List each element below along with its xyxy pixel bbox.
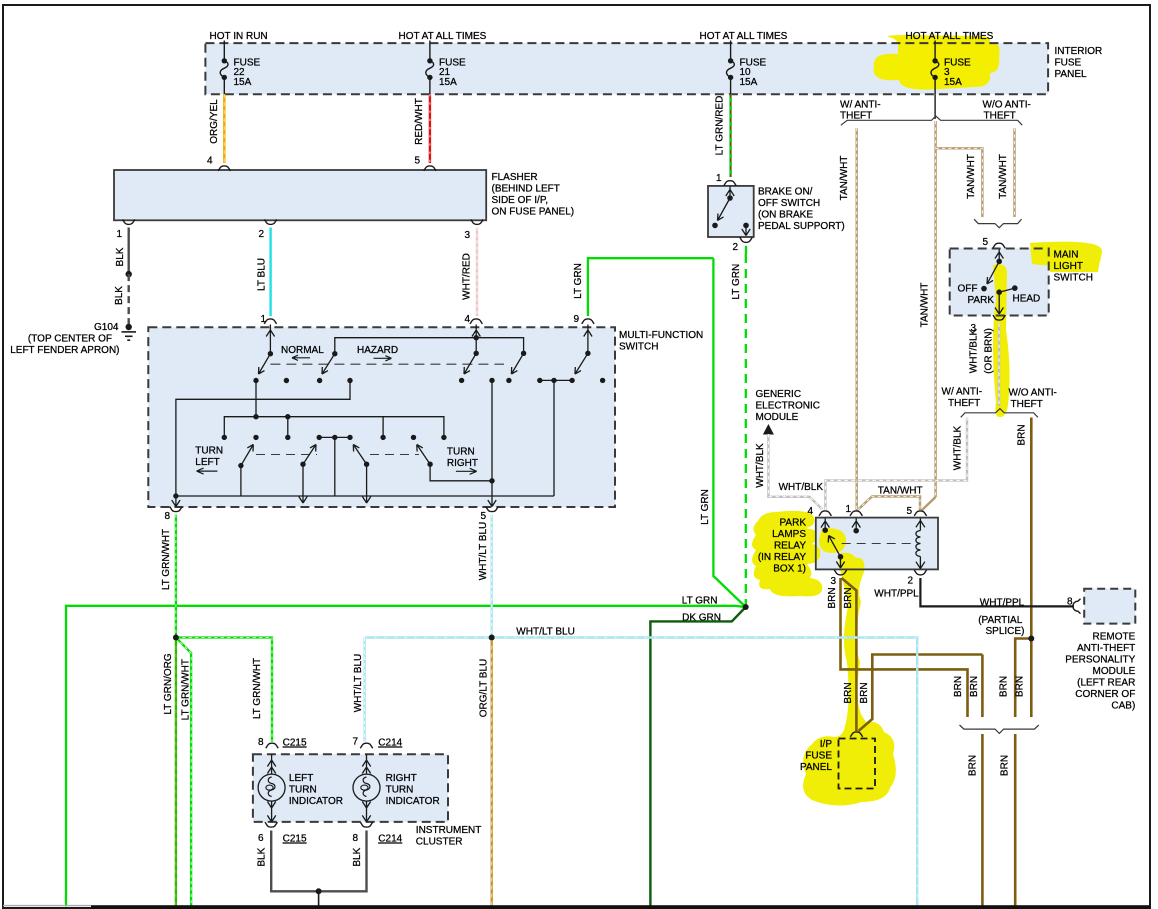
svg-text:FUSE: FUSE xyxy=(1055,58,1082,69)
MFS center-right arm with down arrow xyxy=(364,462,369,467)
MFS bottom bus to pin8 xyxy=(176,495,554,497)
MFS dashed gang line left xyxy=(256,454,317,456)
svg-text:ANTI-THEFT: ANTI-THEFT xyxy=(1077,643,1135,654)
flasher pin 3 connector xyxy=(471,219,483,224)
svg-text:SWITCH: SWITCH xyxy=(619,342,658,353)
wire LT GRN to MFS pin9 xyxy=(573,258,713,316)
svg-text:GENERIC: GENERIC xyxy=(756,389,802,400)
main light switch box xyxy=(950,249,1093,316)
svg-text:LT GRN/WHT: LT GRN/WHT xyxy=(161,529,172,590)
wire LT BLU flasher pin2 to MFS pin1 xyxy=(257,228,271,317)
MLS pin 3 connector pair xyxy=(993,315,1005,320)
svg-text:RELAY: RELAY xyxy=(774,541,806,552)
wire LT GRN brake pin2 down (dashed) xyxy=(731,246,746,604)
interior fuse panel U1 xyxy=(205,43,1102,94)
MFS lower contact dots row xyxy=(222,435,227,440)
wire WHT/LT BLU horizontal xyxy=(365,627,918,907)
svg-text:HOT AT ALL TIMES: HOT AT ALL TIMES xyxy=(700,31,788,42)
svg-text:LT GRN: LT GRN xyxy=(700,489,711,525)
svg-text:BRN: BRN xyxy=(967,755,978,776)
svg-text:15A: 15A xyxy=(944,77,962,88)
MFS pin 8 connector xyxy=(170,507,182,512)
MFS center-left arm with down arrow xyxy=(300,462,305,467)
svg-text:RED/WHT: RED/WHT xyxy=(414,98,425,145)
svg-text:BRN: BRN xyxy=(859,682,870,703)
wire TAN/WHT left branch (long, to relay pin1) xyxy=(839,128,857,511)
svg-text:PEDAL SUPPORT): PEDAL SUPPORT) xyxy=(758,221,845,232)
svg-text:PANEL: PANEL xyxy=(800,762,832,773)
svg-text:SWITCH: SWITCH xyxy=(1054,273,1093,284)
instrument cluster fill xyxy=(253,754,448,822)
svg-text:C214: C214 xyxy=(378,834,402,845)
svg-text:C215: C215 xyxy=(283,738,307,749)
svg-text:RIGHT: RIGHT xyxy=(386,773,417,784)
svg-text:BLK: BLK xyxy=(115,247,126,266)
wire LT GRN long from MFS pin9 corner down to junction xyxy=(700,258,746,607)
svg-text:G104: G104 xyxy=(94,322,119,333)
wire WHT/BLK anti-theft branch to relay pin4 xyxy=(825,418,967,511)
wire BRN bottom pair to bottom bar xyxy=(967,734,1015,907)
park lamps relay box xyxy=(758,518,938,575)
wire ORG/YEL fuse22 to flasher pin4 xyxy=(209,94,224,163)
svg-text:SIDE OF I/P,: SIDE OF I/P, xyxy=(492,195,549,206)
right turn indicator bulb xyxy=(353,754,440,822)
merge brace BRN wires xyxy=(960,725,1039,733)
svg-text:BRN: BRN xyxy=(1014,676,1025,697)
svg-text:LT GRN/RED: LT GRN/RED xyxy=(715,96,726,156)
highlighter: main light switch label xyxy=(1030,242,1102,272)
svg-text:REMOTE: REMOTE xyxy=(1093,632,1136,643)
svg-text:C215: C215 xyxy=(283,834,307,845)
svg-text:HEAD: HEAD xyxy=(1013,294,1041,305)
svg-text:MAIN: MAIN xyxy=(1054,250,1079,261)
svg-text:PANEL: PANEL xyxy=(1055,69,1087,80)
main light switch fill xyxy=(950,249,1049,316)
svg-text:W/ ANTI-: W/ ANTI- xyxy=(942,387,983,398)
svg-text:LT GRN/WHT: LT GRN/WHT xyxy=(252,658,263,719)
svg-text:BRN: BRN xyxy=(953,676,964,697)
svg-text:WHT/LT BLU: WHT/LT BLU xyxy=(516,627,575,638)
wire BRN anti-theft branch long xyxy=(1017,418,1032,639)
merge brace above main light switch xyxy=(974,219,1021,228)
svg-text:MODULE: MODULE xyxy=(1093,666,1136,677)
svg-text:1: 1 xyxy=(716,173,722,184)
split brace under fuse 3 xyxy=(841,116,1022,125)
svg-text:BRN: BRN xyxy=(999,755,1010,776)
svg-text:WHT/BLK: WHT/BLK xyxy=(755,443,766,488)
svg-text:6: 6 xyxy=(258,833,264,844)
svg-text:TURN: TURN xyxy=(447,447,475,458)
connector C215 top xyxy=(266,743,278,748)
svg-text:PERSONALITY: PERSONALITY xyxy=(1065,655,1135,666)
I/P fuse panel connector arc xyxy=(850,732,862,737)
wire TAN/WHT jog relay pin1 to pin5 xyxy=(858,486,923,511)
MFS pin 4 connector xyxy=(470,319,482,324)
fuse 3 15A xyxy=(931,41,971,95)
svg-text:4: 4 xyxy=(464,314,470,325)
brake switch pin 1 connector xyxy=(724,181,736,186)
svg-text:TURN: TURN xyxy=(195,446,223,457)
svg-text:INDICATOR: INDICATOR xyxy=(386,796,440,807)
split brace lower xyxy=(961,409,1038,418)
MFS dashed gang line upper xyxy=(270,363,504,365)
svg-text:HOT IN RUN: HOT IN RUN xyxy=(210,31,268,42)
svg-text:(TOP CENTER OF: (TOP CENTER OF xyxy=(28,334,112,345)
svg-text:ELECTRONIC: ELECTRONIC xyxy=(756,401,820,412)
svg-text:W/ ANTI-: W/ ANTI- xyxy=(840,99,881,110)
svg-text:INDICATOR: INDICATOR xyxy=(289,796,343,807)
MFS wire lower row link xyxy=(319,436,350,438)
svg-text:8: 8 xyxy=(1067,597,1073,608)
wire BRN relay pin3 branch B to I/P fuse panel xyxy=(842,578,857,731)
ground G104 xyxy=(10,322,136,356)
generic electronic module label and arrow xyxy=(756,389,820,435)
svg-text:15A: 15A xyxy=(740,77,758,88)
MFS normal switch arm xyxy=(259,354,271,374)
flasher pin 4 connector xyxy=(218,166,230,171)
svg-text:3: 3 xyxy=(464,230,470,241)
svg-text:9: 9 xyxy=(573,314,579,325)
wire LT GRN/WHT branch to C215 xyxy=(176,638,272,743)
svg-text:LAMPS: LAMPS xyxy=(772,529,806,540)
svg-text:TAN/WHT: TAN/WHT xyxy=(878,486,923,497)
svg-text:TAN/WHT: TAN/WHT xyxy=(920,283,931,328)
svg-text:8: 8 xyxy=(258,737,264,748)
remote anti-theft personality module box xyxy=(1065,589,1135,712)
svg-text:(LEFT REAR: (LEFT REAR xyxy=(1077,678,1135,689)
svg-text:15A: 15A xyxy=(439,77,457,88)
MLS internals OFF PARK HEAD xyxy=(958,250,1041,315)
svg-text:WHT/PPL: WHT/PPL xyxy=(980,598,1025,609)
svg-text:TAN/WHT: TAN/WHT xyxy=(966,154,977,199)
svg-text:HAZARD: HAZARD xyxy=(357,345,398,356)
wire ORG/LT BLU from cyan junction down xyxy=(479,638,492,907)
svg-text:(BEHIND LEFT: (BEHIND LEFT xyxy=(492,184,560,195)
svg-text:THEFT: THEFT xyxy=(1011,399,1043,410)
svg-text:1: 1 xyxy=(260,314,266,325)
wire BRN relay pin3 branch A to right xyxy=(827,578,968,717)
relay internals: switch and pins xyxy=(821,519,917,569)
svg-text:C214: C214 xyxy=(378,738,402,749)
relay pin 4 connector xyxy=(819,511,831,516)
wire fuse3 to split brace xyxy=(934,94,936,119)
svg-text:5: 5 xyxy=(480,511,486,522)
svg-text:CLUSTER: CLUSTER xyxy=(416,837,463,848)
wire WHT/BLK (OR BRN) MLS pin3 down to brace xyxy=(969,324,1000,407)
svg-text:7: 7 xyxy=(352,737,358,748)
flasher pin 2 connector xyxy=(264,219,276,224)
svg-text:BRN: BRN xyxy=(827,587,838,608)
svg-text:BRN: BRN xyxy=(1017,424,1028,445)
svg-text:BRN: BRN xyxy=(969,676,980,697)
MFS wire dot554 down xyxy=(553,380,555,496)
wire WHT/RED flasher pin3 to MFS pin4 xyxy=(462,228,478,317)
svg-text:W/O ANTI-: W/O ANTI- xyxy=(1009,388,1057,399)
wire DK GRN from junction xyxy=(650,607,745,907)
svg-text:(OR BRN): (OR BRN) xyxy=(984,328,995,374)
relay coil xyxy=(916,519,925,569)
flasher pin 5 connector xyxy=(424,166,436,171)
wire TAN/WHT center stem diagonal into relay pin5 xyxy=(922,497,936,511)
svg-text:HOT AT ALL TIMES: HOT AT ALL TIMES xyxy=(906,31,994,42)
svg-text:CORNER OF: CORNER OF xyxy=(1075,689,1135,700)
wire LT GRN horizontal to left edge column xyxy=(66,606,746,907)
svg-text:CAB): CAB) xyxy=(1111,701,1135,712)
svg-text:5: 5 xyxy=(414,156,420,167)
svg-text:WHT/RED: WHT/RED xyxy=(462,253,473,300)
svg-text:W/O ANTI-: W/O ANTI- xyxy=(983,99,1031,110)
wire tan center stem below brace xyxy=(920,121,936,497)
MFS pin9 entry wire and pivot xyxy=(584,325,592,354)
MFS second hazard pivot arm xyxy=(521,351,526,356)
wire WHT/PPL relay pin2 to remote module pin8 xyxy=(920,578,1074,637)
MFS dashed gang line right xyxy=(370,454,419,456)
MFS wire dot350 to left leg xyxy=(176,381,350,497)
svg-text:LT GRN/WHT: LT GRN/WHT xyxy=(181,659,192,720)
highlighter: brn strip below relay pin3 xyxy=(803,553,896,806)
svg-text:2: 2 xyxy=(907,576,913,587)
svg-text:LEFT: LEFT xyxy=(289,773,313,784)
node junction dot green split xyxy=(173,635,179,641)
svg-text:MULTI-FUNCTION: MULTI-FUNCTION xyxy=(619,330,703,341)
svg-text:I/P: I/P xyxy=(820,739,833,750)
MLS pin 5 connector xyxy=(993,243,1005,248)
svg-text:ORG/YEL: ORG/YEL xyxy=(209,99,220,144)
relay pin 1 connector xyxy=(850,511,862,516)
MFS wire center down xyxy=(334,437,336,496)
MFS pin9 switch arm xyxy=(575,353,588,374)
svg-text:FUSE: FUSE xyxy=(805,751,832,762)
svg-text:PARK: PARK xyxy=(780,518,807,529)
svg-text:8: 8 xyxy=(352,833,358,844)
wire tan loop branch W/O anti-theft xyxy=(936,148,983,217)
svg-text:1: 1 xyxy=(116,229,122,240)
svg-text:2: 2 xyxy=(258,229,264,240)
svg-text:(PARTIAL: (PARTIAL xyxy=(978,615,1023,626)
svg-text:WHT/LT BLU: WHT/LT BLU xyxy=(353,654,364,713)
MFS wire dot256 to bus xyxy=(255,381,257,417)
svg-text:LIGHT: LIGHT xyxy=(1054,261,1083,272)
highlighter: fuse 3 xyxy=(873,35,999,90)
remote module pin 8 connector xyxy=(1073,599,1081,614)
MFS pin4 entry wire and pivot xyxy=(472,325,480,354)
svg-text:4: 4 xyxy=(207,156,213,167)
svg-text:TAN/WHT: TAN/WHT xyxy=(839,156,850,201)
MFS pin 9 connector xyxy=(582,319,594,324)
svg-text:1: 1 xyxy=(845,504,851,515)
node junction dot LT GRN / DK GRN xyxy=(743,604,749,610)
svg-text:MODULE: MODULE xyxy=(756,412,799,423)
wire BLK flasher pin1 to G104 xyxy=(114,228,132,328)
flasher box xyxy=(114,170,574,220)
svg-text:4: 4 xyxy=(807,506,813,517)
svg-text:ON FUSE PANEL): ON FUSE PANEL) xyxy=(492,207,575,218)
wire BRN branch from splice xyxy=(953,639,1031,718)
connector C214 bottom xyxy=(360,822,372,827)
MFS hazard pivot and riser xyxy=(332,351,337,356)
fuse 22 15A xyxy=(220,41,260,95)
svg-text:TURN: TURN xyxy=(386,785,414,796)
connector C215 bottom xyxy=(265,822,277,827)
highlighter: park wire strip xyxy=(993,264,1010,417)
svg-text:WHT/BLK: WHT/BLK xyxy=(779,482,824,493)
MFS pin5 wire down xyxy=(489,478,494,483)
wire WHT/LT BLU MFS pin5 down xyxy=(478,515,492,638)
svg-text:5: 5 xyxy=(906,506,912,517)
remote module fill xyxy=(1084,589,1135,624)
MFS pin 1 connector xyxy=(264,319,276,324)
svg-text:WHT/BLK: WHT/BLK xyxy=(969,328,980,373)
park lamps relay fill xyxy=(816,518,938,570)
svg-text:TAN/WHT: TAN/WHT xyxy=(998,154,1009,199)
left turn indicator bulb xyxy=(258,754,343,822)
wire tan from brace right end xyxy=(998,128,1015,217)
svg-text:3: 3 xyxy=(830,576,836,587)
svg-text:5: 5 xyxy=(982,237,988,248)
svg-text:LT GRN/ORG: LT GRN/ORG xyxy=(163,653,174,715)
svg-text:NORMAL: NORMAL xyxy=(281,345,324,356)
svg-text:INSTRUMENT: INSTRUMENT xyxy=(416,825,482,836)
MFS turn-left arm xyxy=(238,463,243,468)
brake on/off switch xyxy=(708,186,845,237)
connector C214 top xyxy=(360,743,372,748)
svg-text:SPLICE): SPLICE) xyxy=(986,626,1025,637)
multi-function switch fill xyxy=(148,327,615,507)
wire RED/WHT fuse21 to flasher pin5 xyxy=(414,94,430,163)
svg-text:LEFT FENDER APRON): LEFT FENDER APRON) xyxy=(10,345,119,356)
wire LT GRN/RED fuse10 to brake switch pin1 xyxy=(715,94,731,177)
svg-text:RIGHT: RIGHT xyxy=(447,458,478,469)
MFS pin4 switch arm xyxy=(464,353,476,374)
svg-text:LEFT: LEFT xyxy=(195,457,219,468)
MFS upper contact dots row xyxy=(253,378,258,383)
multi-function switch box xyxy=(148,327,703,507)
svg-text:8: 8 xyxy=(164,511,170,522)
svg-text:15A: 15A xyxy=(234,77,252,88)
relay pin 2 connector xyxy=(914,570,926,575)
interior fuse panel fill xyxy=(205,43,1048,94)
highlighter: park lamps relay label blob xyxy=(752,511,846,597)
flasher pin 1 connector xyxy=(123,219,135,224)
brake switch pin 2 connector xyxy=(740,237,752,242)
svg-text:BLK: BLK xyxy=(352,847,363,866)
MFS wire upper row link xyxy=(540,379,572,381)
svg-text:LT BLU: LT BLU xyxy=(257,258,268,291)
svg-text:LT GRN: LT GRN xyxy=(731,264,742,300)
svg-text:PARK: PARK xyxy=(968,295,995,306)
relay pin 5 connector xyxy=(914,511,926,516)
wire LT GRN/WHT diagonal branch down xyxy=(176,638,192,907)
svg-text:BOX 1): BOX 1) xyxy=(773,564,806,575)
svg-text:BLK: BLK xyxy=(114,286,125,305)
svg-text:ORG/LT BLU: ORG/LT BLU xyxy=(479,659,490,718)
svg-text:BLK: BLK xyxy=(257,847,268,866)
brake switch internals xyxy=(712,187,750,236)
svg-text:BRN: BRN xyxy=(998,676,1009,697)
svg-text:LT GRN: LT GRN xyxy=(573,263,584,299)
svg-text:WHT/PPL: WHT/PPL xyxy=(874,589,919,600)
svg-text:(ON BRAKE: (ON BRAKE xyxy=(758,210,813,221)
wire BLK cluster grounds join xyxy=(257,831,367,907)
MFS mid bus xyxy=(224,417,444,438)
svg-text:BRN: BRN xyxy=(843,682,854,703)
bottom ground bar xyxy=(3,905,91,907)
wire BRN horizontal upper to I/P fuse panel xyxy=(859,655,983,732)
brake switch fill xyxy=(708,186,754,237)
relay pin 3 connector xyxy=(834,570,846,575)
svg-text:2: 2 xyxy=(732,242,738,253)
wire LT GRN/WHT MFS pin8 down xyxy=(161,515,176,638)
svg-text:HOT AT ALL TIMES: HOT AT ALL TIMES xyxy=(399,31,487,42)
instrument cluster box xyxy=(253,754,481,847)
fuse 21 15A xyxy=(426,41,466,95)
svg-text:INTERIOR: INTERIOR xyxy=(1055,46,1103,57)
MFS turn-right arm xyxy=(427,462,432,467)
node junction dot BRN partial splice xyxy=(1028,636,1034,642)
flasher fill xyxy=(114,170,486,220)
svg-text:BRAKE ON/: BRAKE ON/ xyxy=(758,187,813,198)
MFS pin1 entry wire and normal pivot xyxy=(266,325,274,354)
I/P fuse panel box xyxy=(800,739,875,789)
MFS pin 5 connector xyxy=(486,507,498,512)
wire LT GRN/ORG continues down xyxy=(163,638,176,907)
svg-text:(IN RELAY: (IN RELAY xyxy=(758,552,806,563)
svg-text:WHT/BLK: WHT/BLK xyxy=(952,425,963,470)
svg-text:WHT/LT BLU: WHT/LT BLU xyxy=(478,522,489,581)
svg-text:OFF SWITCH: OFF SWITCH xyxy=(758,198,820,209)
svg-text:OFF: OFF xyxy=(958,284,978,295)
node junction dot cyan split xyxy=(489,635,495,641)
wire WHT/BLK to generic electronic module xyxy=(755,434,823,510)
svg-text:FLASHER: FLASHER xyxy=(492,172,538,183)
svg-text:BRN: BRN xyxy=(843,587,854,608)
svg-text:THEFT: THEFT xyxy=(948,398,980,409)
fuse 10 15A xyxy=(726,41,766,95)
svg-text:TURN: TURN xyxy=(289,785,317,796)
wire WHT/LT BLU branch to C214 xyxy=(353,638,365,743)
MFS hazard switch arm xyxy=(322,354,335,374)
